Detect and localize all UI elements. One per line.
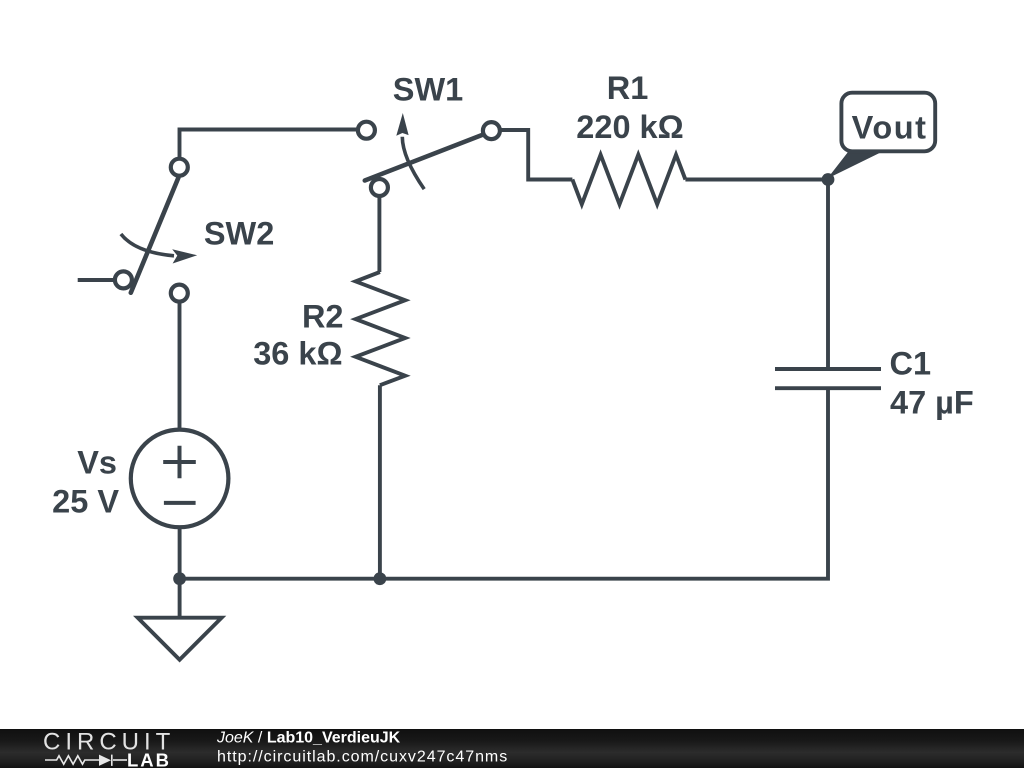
- capacitor C1: [775, 369, 881, 388]
- wire R1 right lead to node Vout: [685, 178, 828, 182]
- wire SW1 right terminal to R1 left lead: [491, 130, 572, 180]
- resistor R2: [356, 272, 406, 385]
- svg-text:Vout: Vout: [852, 109, 928, 145]
- svg-text:JoeK / Lab10_VerdieuJK: JoeK / Lab10_VerdieuJK: [216, 730, 401, 747]
- CircuitLab logo resistor-diode squiggle: [45, 755, 127, 766]
- wire C1 bottom plate down and along bottom to ground junction: [180, 388, 828, 579]
- wire dead-end to SW2 lower-left terminal: [78, 278, 123, 282]
- svg-text:36 kΩ: 36 kΩ: [253, 336, 342, 372]
- svg-text:SW1: SW1: [393, 72, 463, 108]
- svg-text:220 kΩ: 220 kΩ: [576, 109, 683, 145]
- svg-text:47 µF: 47 µF: [890, 384, 974, 420]
- wire node Vout down to C1 top plate: [826, 180, 830, 370]
- svg-text:C1: C1: [890, 346, 932, 382]
- svg-text:Vs: Vs: [77, 445, 117, 481]
- svg-text:R2: R2: [302, 298, 344, 334]
- node Vout junction dot: [822, 173, 835, 186]
- wire Vs minus terminal down to ground junction: [178, 527, 182, 579]
- svg-text:25 V: 25 V: [52, 484, 119, 520]
- wire SW1 pivot terminal down to R2 top lead: [377, 188, 381, 273]
- CircuitLab logo diode triangle: [99, 755, 111, 766]
- junction dot at Vs/ground: [173, 572, 186, 585]
- switch SW1: [358, 113, 500, 196]
- switch SW2: [115, 159, 197, 302]
- svg-text:R1: R1: [607, 70, 649, 106]
- resistor R1: [572, 155, 685, 205]
- bottom attribution bar: [0, 729, 1024, 768]
- wire SW2 lower throw down to Vs plus terminal: [178, 293, 182, 430]
- svg-text:LAB: LAB: [127, 750, 171, 768]
- wire SW2 common up and across to SW1 left terminal: [180, 130, 367, 168]
- voltage source Vs: [131, 430, 229, 528]
- ground: [138, 579, 222, 660]
- svg-text:http://circuitlab.com/cuxv247c: http://circuitlab.com/cuxv247c47nms: [217, 749, 508, 766]
- junction dot at R2 bottom: [374, 572, 387, 585]
- svg-text:SW2: SW2: [204, 216, 274, 252]
- wire R2 bottom lead down to bottom rail junction: [378, 385, 382, 579]
- node flag Vout: [827, 93, 935, 179]
